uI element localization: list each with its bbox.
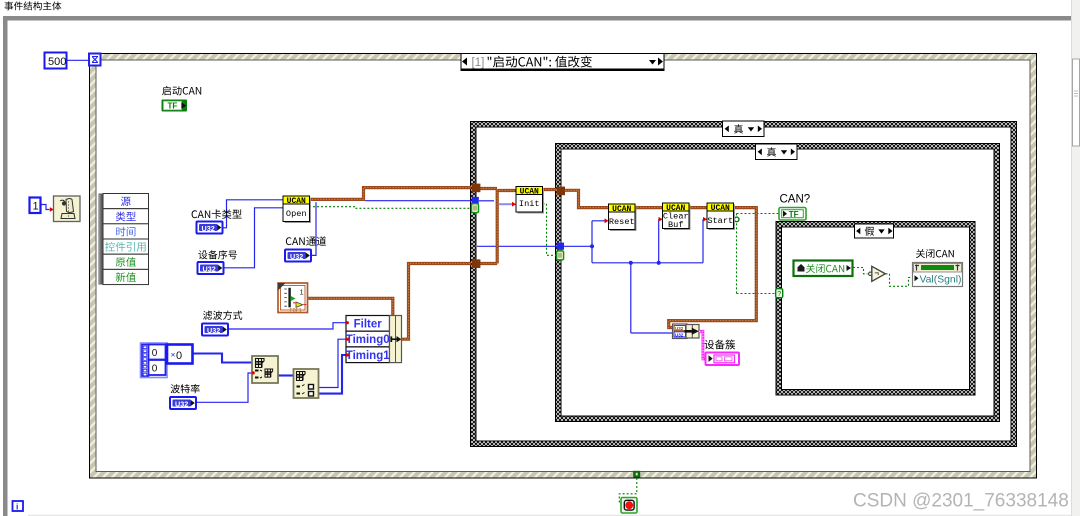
tunnel brown top (outer case)	[472, 184, 481, 193]
svg-text:0: 0	[176, 350, 182, 362]
svg-text:[1]: [1]	[472, 57, 485, 69]
outer case selector text 真	[734, 124, 743, 133]
property node 关闭CAN	[913, 263, 963, 287]
not gate	[872, 266, 886, 281]
label 启动CAN	[162, 86, 201, 95]
wire 波特率 to index1	[196, 373, 252, 402]
wire Open out handle	[365, 200, 471, 202]
svg-text:F0F1: F0F1	[290, 308, 302, 314]
subVI UCAN Reset	[610, 206, 637, 232]
svg-text:Open: Open	[286, 209, 307, 219]
inner case structure (真) border	[556, 144, 1000, 422]
subVI icon (event helper)	[54, 196, 81, 222]
svg-text:0: 0	[152, 364, 158, 375]
svg-text:?: ?	[777, 291, 781, 298]
wire cluster Init to chain	[543, 190, 757, 328]
wire CAN卡类型 to Open	[222, 200, 283, 228]
selector text	[488, 56, 592, 68]
faint bottom line	[28, 515, 1071, 516]
wire array to index1	[193, 354, 253, 363]
wire cluster slider to bundle	[308, 298, 393, 315]
wire error Open	[309, 207, 470, 209]
subVI UCAN Clear Buf	[664, 205, 691, 231]
tunnel ? (innermost case)	[776, 289, 783, 298]
svg-text:U32: U32	[675, 326, 684, 331]
boolean constant 启动CAN TF	[162, 100, 188, 112]
label CAN通道	[286, 236, 326, 246]
svg-text:CSDN @2301_76338148: CSDN @2301_76338148	[853, 491, 1069, 512]
event data field 类型	[116, 212, 136, 222]
svg-text:U32: U32	[203, 264, 216, 273]
numeric control CAN通道 U32	[285, 250, 311, 262]
slider subVI icon	[278, 283, 308, 313]
svg-text:Filter: Filter	[354, 319, 383, 331]
wire local var to not gate	[853, 268, 868, 274]
bundle node 设备簇	[673, 324, 688, 339]
wire not gate to property node	[886, 274, 912, 287]
wire constant1 to subvi	[41, 205, 50, 210]
wire cluster to 设备簇 indicator	[699, 331, 706, 359]
wire cluster filter-bundle to Init	[402, 190, 498, 340]
svg-text:500: 500	[48, 56, 66, 68]
diagram title 事件结构主体	[5, 1, 62, 10]
label 设备序号	[198, 250, 237, 259]
wire 滤波方式 to Filter	[229, 323, 346, 329]
label 滤波方式	[203, 311, 242, 320]
svg-text:Init: Init	[519, 199, 540, 209]
inner case selector 真	[756, 144, 798, 160]
svg-text:×: ×	[171, 350, 176, 360]
event data field 源	[121, 197, 131, 207]
event data field 原值	[116, 257, 136, 267]
index array node 1	[252, 356, 278, 383]
multiply x0 node	[167, 345, 193, 364]
outer case structure (真) border	[471, 122, 1017, 447]
svg-text:Reset: Reset	[609, 217, 635, 227]
tunnel error (outer case)	[472, 204, 479, 213]
wire handle into Init	[479, 200, 494, 202]
svg-text:i: i	[16, 502, 18, 512]
wire cluster tunnel to Init	[480, 187, 497, 190]
event structure selector label	[461, 54, 664, 71]
svg-text:Timing1: Timing1	[346, 350, 390, 362]
subVI UCAN Start	[709, 205, 736, 231]
label 关闭CAN (property node)	[916, 249, 954, 258]
outer case selector 真	[723, 121, 765, 137]
stop button	[621, 498, 637, 514]
label 设备簇	[705, 340, 736, 350]
event structure border	[90, 54, 1037, 479]
inner case selector text 真	[767, 147, 776, 156]
wire 500 to timeout	[67, 59, 89, 61]
wire handle into Init (behind)	[499, 203, 512, 205]
index array node 2	[294, 369, 319, 398]
svg-text:U32: U32	[202, 224, 215, 233]
svg-text:Timing0: Timing0	[346, 334, 390, 346]
innermost case selector text 假	[865, 227, 874, 236]
wire Start bool out	[734, 214, 780, 294]
innermost case selector 假	[855, 224, 894, 238]
wire CAN通道 join	[311, 202, 316, 255]
wire cluster Open to tunnel	[309, 188, 471, 200]
loop iteration terminal i	[13, 501, 24, 511]
constant 500	[45, 53, 67, 69]
svg-text:Buf: Buf	[668, 220, 683, 230]
svg-text:0: 0	[152, 348, 158, 359]
wire 设备序号 to Open	[224, 208, 283, 268]
svg-text:U32: U32	[675, 332, 684, 337]
array constant	[141, 343, 168, 378]
constant 1	[30, 198, 41, 214]
label 波特率	[171, 384, 200, 393]
svg-text:U32: U32	[207, 326, 220, 335]
subVI UCAN Open	[285, 198, 312, 224]
numeric control 设备序号 U32	[198, 262, 224, 274]
local variable text 关闭CAN	[806, 264, 844, 273]
svg-text:1: 1	[300, 288, 304, 297]
wire index1 to index2	[278, 374, 294, 376]
scrollbar track	[1072, 0, 1080, 516]
svg-text:Val(Sgnl): Val(Sgnl)	[920, 275, 962, 286]
bundle by name Filter/Timing0/Timing1	[346, 316, 390, 332]
label CAN卡类型	[192, 209, 242, 219]
numeric control 滤波方式 U32	[202, 324, 228, 336]
event data node	[99, 194, 104, 285]
svg-text:TF: TF	[789, 210, 799, 219]
wire error Init down	[543, 204, 557, 256]
event data field 时间	[116, 227, 135, 237]
wire handle inner segment	[477, 219, 707, 333]
scrollbar thumb	[1073, 59, 1080, 146]
cluster indicator 设备簇	[706, 353, 740, 366]
event data field 新值	[116, 272, 136, 282]
tunnel brown (inner case)	[556, 187, 565, 196]
svg-text:TF: TF	[168, 102, 178, 111]
tunnel blue (outer case)	[472, 197, 479, 204]
numeric control CAN卡类型 U32	[197, 222, 223, 234]
svg-text:Start: Start	[707, 216, 733, 226]
numeric control 波特率 U32	[170, 397, 196, 409]
wire cluster junction to Init	[496, 189, 516, 192]
wire index2 out B	[319, 355, 347, 394]
local variable 关闭CAN	[794, 261, 853, 277]
timeout terminal	[89, 54, 101, 66]
tunnel blue (inner case)	[557, 243, 564, 250]
event data field 控件引用	[105, 242, 146, 252]
wire stop button	[619, 478, 637, 504]
boolean indicator CAN? TF	[779, 208, 806, 221]
svg-text:CAN?: CAN?	[780, 194, 811, 206]
wire index2 out A	[319, 339, 347, 387]
innermost case structure (假) border	[776, 222, 975, 396]
tunnel error (inner case)	[557, 251, 564, 260]
svg-text:U32: U32	[175, 399, 188, 408]
tunnel brown bottom (outer case)	[472, 259, 481, 268]
svg-text:1: 1	[33, 201, 39, 213]
tunnel stop (event bottom)	[633, 471, 640, 478]
svg-text:U32: U32	[290, 252, 303, 261]
subVI UCAN Init	[518, 188, 545, 214]
